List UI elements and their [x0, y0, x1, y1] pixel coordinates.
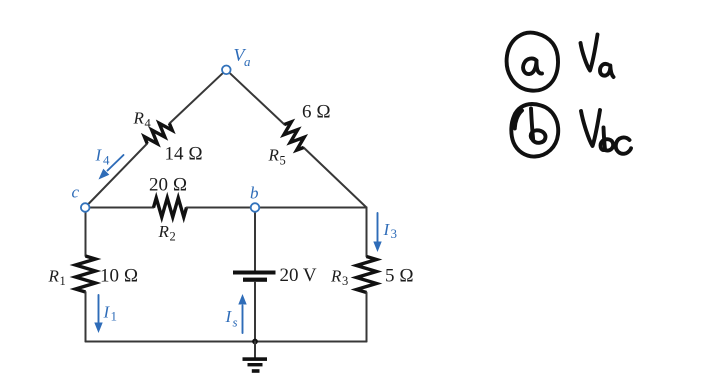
svg-text:4: 4	[103, 153, 110, 168]
handwritten letter a inside circle	[523, 58, 542, 74]
resistor R2 zigzag 20 ohm	[154, 198, 187, 217]
middle wire b to battery	[254, 208, 256, 271]
wire Va to R5 (diagonal upper segment)	[226, 70, 284, 125]
current arrow Is	[242, 306, 244, 334]
battery 20 V bottom plate	[243, 278, 267, 282]
left vertical wire lower	[85, 292, 87, 342]
svg-text:I: I	[95, 146, 103, 165]
current arrow I1	[98, 295, 100, 324]
horizontal wire R2 to b to right corner	[187, 207, 367, 209]
middle wire battery to bottom	[254, 282, 256, 342]
svg-text:R: R	[268, 146, 280, 165]
svg-text:R: R	[48, 267, 60, 286]
battery 20 V top plate	[233, 271, 276, 275]
svg-text:3: 3	[342, 274, 348, 288]
ground bar 2	[248, 363, 263, 366]
bottom wire	[86, 341, 367, 343]
wire c to R4 (diagonal lower segment)	[85, 144, 147, 208]
handwritten Va label: V	[581, 35, 598, 71]
handwritten Vbc label: subscript c	[616, 138, 631, 154]
resistor R5 zigzag 6 ohm	[279, 120, 309, 152]
svg-text:1: 1	[60, 274, 66, 288]
current arrow I3	[377, 213, 379, 243]
svg-text:R: R	[158, 222, 170, 241]
handwritten circle b start tail	[515, 111, 522, 129]
svg-text:14 Ω: 14 Ω	[165, 144, 203, 165]
left vertical wire upper	[85, 208, 87, 257]
right vertical wire upper	[366, 208, 368, 257]
svg-text:s: s	[233, 315, 238, 330]
node c open circle	[81, 203, 90, 212]
handwritten Vbc label: V	[581, 110, 600, 146]
svg-text:I: I	[383, 220, 391, 239]
handwritten letter b inside circle: stem	[531, 109, 533, 141]
current arrow I4	[108, 155, 124, 171]
svg-text:R: R	[133, 109, 145, 128]
ground stem	[254, 342, 256, 358]
handwritten circle around a	[507, 33, 558, 91]
resistor R1 zigzag 10 ohm	[76, 256, 96, 292]
svg-text:20 V: 20 V	[280, 265, 317, 286]
handwritten Vbc label: subscript b bowl	[601, 139, 614, 150]
svg-text:I: I	[103, 303, 111, 322]
svg-text:1: 1	[111, 309, 118, 324]
svg-text:b: b	[250, 184, 259, 203]
svg-text:a: a	[244, 54, 251, 69]
svg-text:20 Ω: 20 Ω	[149, 175, 187, 196]
wire R5 to right corner (diagonal lower segment)	[304, 148, 367, 208]
node b open circle	[251, 203, 260, 212]
svg-text:I: I	[225, 307, 233, 326]
handwritten letter b inside circle: bowl	[531, 130, 546, 142]
handwritten Va label: subscript a	[600, 64, 614, 77]
horizontal wire c to R2	[85, 207, 154, 209]
svg-text:6 Ω: 6 Ω	[302, 102, 331, 123]
resistor R4 zigzag 14 ohm	[142, 118, 174, 148]
ground bar 1	[243, 357, 268, 361]
svg-text:c: c	[72, 183, 80, 202]
svg-text:10 Ω: 10 Ω	[100, 266, 138, 287]
right vertical wire lower	[366, 293, 368, 342]
wire R4 to node Va (diagonal upper segment)	[169, 70, 226, 124]
svg-text:2: 2	[170, 230, 176, 244]
svg-text:3: 3	[391, 226, 398, 241]
svg-text:5: 5	[280, 154, 286, 168]
resistor R3 zigzag 5 ohm	[357, 257, 377, 293]
svg-text:5 Ω: 5 Ω	[385, 266, 414, 287]
handwritten circle around b	[511, 104, 558, 157]
node Va open circle	[222, 66, 231, 75]
junction dot	[252, 339, 258, 345]
ground bar 3	[252, 369, 260, 373]
svg-text:R: R	[330, 267, 342, 286]
handwritten Vbc label: subscript b stem	[604, 128, 606, 150]
svg-text:4: 4	[145, 117, 152, 131]
